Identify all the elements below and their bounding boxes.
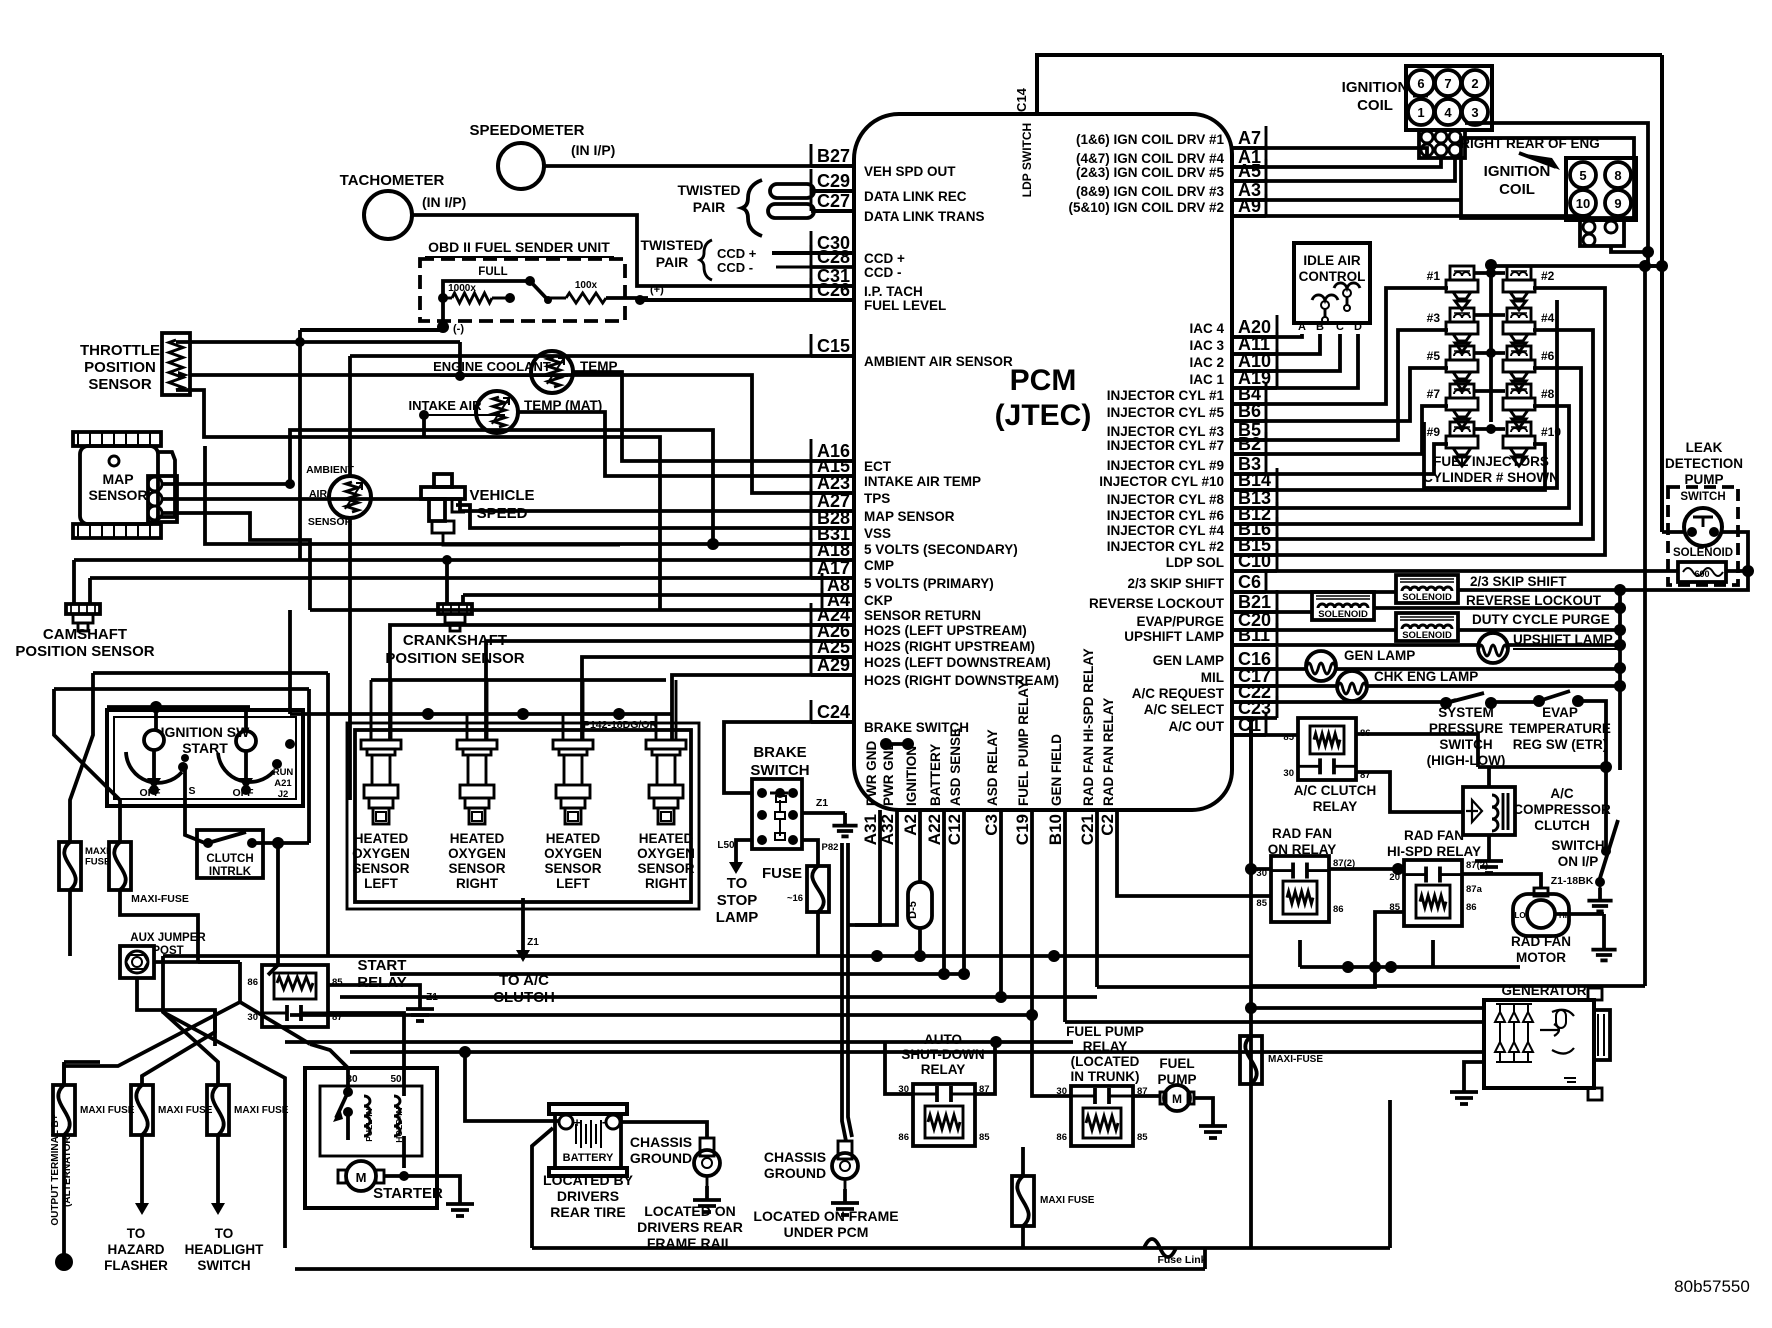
wire B5 to injector #3 xyxy=(1232,330,1448,440)
wire fuse down xyxy=(816,912,820,956)
svg-text:87a: 87a xyxy=(1466,884,1483,895)
svg-text:FUSE: FUSE xyxy=(762,865,802,882)
svg-text:LDP SWITCH: LDP SWITCH xyxy=(1020,123,1034,197)
wire A10 IAC pin C xyxy=(1232,334,1340,371)
svg-text:PWR GND: PWR GND xyxy=(881,741,896,806)
svg-text:CYLINDER # SHOWN: CYLINDER # SHOWN xyxy=(1423,470,1559,485)
wire C24 brake switch xyxy=(724,722,854,793)
wire B14 to injector #10 xyxy=(1232,444,1545,490)
bus battery feed xyxy=(390,972,964,976)
svg-text:AUTO: AUTO xyxy=(924,1032,962,1047)
svg-text:FUEL LEVEL: FUEL LEVEL xyxy=(864,298,946,313)
svg-text:OXYGEN: OXYGEN xyxy=(352,846,410,861)
injector #3 xyxy=(1450,308,1474,322)
wire C15 ambient air sensor xyxy=(350,354,854,358)
svg-text:SWITCH: SWITCH xyxy=(1680,491,1725,503)
injector row supply wire xyxy=(1474,389,1505,393)
svg-text:LEFT: LEFT xyxy=(556,876,590,891)
svg-text:MOTOR: MOTOR xyxy=(1516,950,1566,965)
relay 86 wire xyxy=(1356,734,1478,767)
svg-text:VEHICLE: VEHICLE xyxy=(469,487,534,504)
svg-text:PAIR: PAIR xyxy=(656,254,688,270)
svg-text:C15: C15 xyxy=(817,336,850,356)
bus sensor return to A4 xyxy=(310,608,854,612)
injector supply bus vertical xyxy=(1489,265,1493,422)
svg-text:SOLENOID: SOLENOID xyxy=(1318,609,1368,620)
svg-text:LEFT: LEFT xyxy=(364,876,398,891)
svg-text:C19: C19 xyxy=(1013,814,1032,845)
svg-text:GEN LAMP: GEN LAMP xyxy=(1153,653,1224,668)
wire TPS signal to A23 xyxy=(189,375,854,493)
svg-text:A7: A7 xyxy=(1238,128,1261,148)
svg-text:VEH SPD OUT: VEH SPD OUT xyxy=(864,164,956,179)
wire battery - to chassis ground 1 xyxy=(620,1122,707,1138)
svg-text:HEATED: HEATED xyxy=(354,831,409,846)
svg-text:IN TRUNK): IN TRUNK) xyxy=(1071,1069,1140,1084)
svg-text:C: C xyxy=(1336,321,1344,333)
svg-text:TO: TO xyxy=(727,875,748,892)
LDP solenoid 600 ohm xyxy=(1678,562,1726,582)
2/3 skip shift solenoid xyxy=(1396,575,1458,603)
heated oxygen sensor right 4 xyxy=(646,740,686,749)
svg-text:IGNITION: IGNITION xyxy=(1342,79,1409,96)
bus CMP to A18 xyxy=(74,558,854,562)
svg-text:PAIR: PAIR xyxy=(693,199,725,215)
fuel injector bank box xyxy=(1424,300,1557,488)
svg-text:BRAKE: BRAKE xyxy=(753,744,806,761)
wire brake switch P82 to fuse xyxy=(802,840,818,866)
wire bus to ASD relay xyxy=(885,1042,913,1094)
svg-text:(4&7) IGN COIL DRV #4: (4&7) IGN COIL DRV #4 xyxy=(1076,151,1225,166)
maxi fuse left 1 xyxy=(59,842,81,890)
svg-text:M: M xyxy=(356,1170,367,1185)
svg-text:B21: B21 xyxy=(1238,592,1271,612)
svg-text:MAXI FUSE: MAXI FUSE xyxy=(234,1105,289,1116)
svg-text:CCD +: CCD + xyxy=(864,251,905,266)
wire A1 to coil T1 xyxy=(1232,158,1441,167)
svg-text:A22: A22 xyxy=(925,814,944,845)
svg-text:STOP: STOP xyxy=(717,892,758,909)
svg-text:TACHOMETER: TACHOMETER xyxy=(340,172,445,189)
svg-text:C21: C21 xyxy=(1078,814,1097,845)
node (-) sender ground xyxy=(441,298,445,327)
start relay 85 to Z1 ground xyxy=(328,985,420,995)
svg-text:#4: #4 xyxy=(1541,311,1555,325)
injector #8 xyxy=(1507,384,1531,398)
maxi fuse left 2 xyxy=(109,842,131,890)
wire CCD+ to C30 xyxy=(772,251,854,255)
svg-text:INJECTOR CYL #8: INJECTOR CYL #8 xyxy=(1107,492,1225,507)
svg-text:SENSOR: SENSOR xyxy=(637,861,694,876)
compressor clutch ground xyxy=(1487,835,1491,847)
bus fuel pump xyxy=(290,1013,1032,1017)
svg-text:ASD RELAY: ASD RELAY xyxy=(985,729,1000,806)
svg-text:A: A xyxy=(1298,321,1306,333)
maxi fuse bottom 1 xyxy=(53,1085,75,1135)
svg-text:SENSOR: SENSOR xyxy=(448,861,505,876)
svg-text:MAXI-FUSE: MAXI-FUSE xyxy=(131,893,189,905)
svg-text:CLUTCH: CLUTCH xyxy=(493,989,555,1006)
starter motor M xyxy=(346,1161,376,1191)
svg-text:IAC 3: IAC 3 xyxy=(1189,338,1224,353)
svg-text:INJECTOR CYL #1: INJECTOR CYL #1 xyxy=(1107,388,1225,403)
outer box right edge xyxy=(1660,55,1664,532)
svg-text:FUEL PUMP RELAY: FUEL PUMP RELAY xyxy=(1016,680,1031,806)
svg-text:SOLENOID: SOLENOID xyxy=(1673,547,1733,559)
wire fuel level to C26 xyxy=(640,298,854,302)
svg-text:87(2): 87(2) xyxy=(1466,860,1488,871)
svg-text:GROUND: GROUND xyxy=(764,1165,826,1181)
svg-text:5: 5 xyxy=(1579,168,1586,183)
wire LDP switch to outer bus xyxy=(1662,530,1684,534)
wire C21 hi-spd coil xyxy=(1097,912,1404,987)
rad fan motor ground xyxy=(1555,912,1604,916)
svg-text:C14: C14 xyxy=(1014,87,1029,112)
svg-text:10: 10 xyxy=(1576,196,1590,211)
wire B3 to injector #9 xyxy=(1232,444,1448,474)
svg-text:CHASSIS: CHASSIS xyxy=(764,1149,826,1165)
svg-text:START: START xyxy=(182,740,228,756)
svg-text:A/C REQUEST: A/C REQUEST xyxy=(1132,686,1225,701)
wire sender ground to splice xyxy=(300,328,443,332)
svg-text:CHASSIS: CHASSIS xyxy=(630,1134,692,1150)
svg-text:OFF: OFF xyxy=(233,787,255,799)
svg-text:REAR TIRE: REAR TIRE xyxy=(550,1204,625,1220)
svg-text:SWITCH: SWITCH xyxy=(750,762,809,779)
wire pressure switch to compressor xyxy=(1478,765,1606,769)
wire C19 to fuel pump relay xyxy=(1032,1015,1071,1096)
svg-text:C28: C28 xyxy=(817,247,850,267)
svg-text:Z1: Z1 xyxy=(816,797,828,809)
svg-text:IAC 2: IAC 2 xyxy=(1189,355,1224,370)
svg-text:SENSOR: SENSOR xyxy=(88,487,147,503)
svg-text:POSITION SENSOR: POSITION SENSOR xyxy=(385,650,524,667)
svg-text:SENSOR: SENSOR xyxy=(544,861,601,876)
svg-text:A5: A5 xyxy=(1238,161,1261,181)
wire C20 to purge solenoid xyxy=(1232,628,1396,632)
MAP sensor xyxy=(73,432,161,446)
svg-text:SENSOR RETURN: SENSOR RETURN xyxy=(864,608,981,623)
svg-text:COIL: COIL xyxy=(1499,181,1535,198)
fuel pump relay wire C19 xyxy=(1030,810,1034,1015)
starter solenoid switch xyxy=(346,1068,350,1092)
starter assembly xyxy=(305,1068,437,1208)
brake switch sense contact inside PCM xyxy=(880,738,892,750)
ignition switch box xyxy=(107,710,303,806)
svg-text:EVAP/PURGE: EVAP/PURGE xyxy=(1136,614,1224,629)
svg-text:30: 30 xyxy=(1283,768,1294,779)
wire skip shift return xyxy=(1458,571,1748,590)
maxi-fuse alternator xyxy=(1240,1036,1262,1084)
svg-text:DRIVERS: DRIVERS xyxy=(557,1188,619,1204)
bus 5V primary to A17 xyxy=(90,576,854,580)
svg-text:C3: C3 xyxy=(982,814,1001,836)
wire brake switch L50 to stop lamp xyxy=(736,840,752,852)
battery xyxy=(549,1104,627,1114)
rad fan relay wire C2 xyxy=(1117,810,1271,896)
wire VSS to B28 xyxy=(456,505,854,528)
svg-text:#5: #5 xyxy=(1427,349,1441,363)
svg-text:85: 85 xyxy=(1256,898,1267,909)
svg-text:CKP: CKP xyxy=(864,593,893,608)
svg-text:#2: #2 xyxy=(1541,269,1555,283)
svg-text:#6: #6 xyxy=(1541,349,1555,363)
svg-text:COIL: COIL xyxy=(1357,97,1393,114)
svg-text:RELAY: RELAY xyxy=(357,974,406,991)
wire TPS return xyxy=(176,390,660,610)
bottom bus 1 xyxy=(532,1246,1390,1250)
svg-text:FUEL INJECTORS: FUEL INJECTORS xyxy=(1433,454,1549,469)
svg-text:HEATED: HEATED xyxy=(639,831,694,846)
wire MAT return junction xyxy=(419,410,429,420)
fan circuit bottom bus xyxy=(1251,984,1645,988)
svg-text:GENERATOR: GENERATOR xyxy=(1501,983,1586,998)
svg-text:2: 2 xyxy=(1471,76,1478,91)
svg-text:DUTY CYCLE PURGE: DUTY CYCLE PURGE xyxy=(1472,612,1610,627)
wire start relay 87 to starter 50 xyxy=(328,1013,404,1068)
wire B21 to reverse lockout xyxy=(1232,610,1312,614)
svg-text:HI-SPD RELAY: HI-SPD RELAY xyxy=(1387,844,1481,859)
svg-text:IAC 4: IAC 4 xyxy=(1189,321,1224,336)
maxi fuse bottom 3 xyxy=(207,1085,229,1135)
A/C compressor clutch xyxy=(1463,787,1515,835)
svg-text:(LOCATED: (LOCATED xyxy=(1071,1054,1140,1069)
svg-text:OFF: OFF xyxy=(140,787,162,799)
wire A29 HO2S4 signal xyxy=(672,675,854,740)
svg-text:LOCATED BY: LOCATED BY xyxy=(543,1172,634,1188)
svg-text:FULL: FULL xyxy=(478,266,507,278)
svg-text:MAP SENSOR: MAP SENSOR xyxy=(864,509,955,524)
svg-text:LO: LO xyxy=(1514,911,1525,920)
svg-text:OBD II FUEL SENDER UNIT: OBD II FUEL SENDER UNIT xyxy=(428,239,610,255)
svg-text:OXYGEN: OXYGEN xyxy=(448,846,506,861)
svg-text:MAXI FUSE: MAXI FUSE xyxy=(158,1105,213,1116)
injector #1 xyxy=(1450,266,1474,280)
svg-text:B: B xyxy=(1316,321,1324,333)
injector row supply wire xyxy=(1474,313,1505,317)
svg-text:INTAKE AIR TEMP: INTAKE AIR TEMP xyxy=(864,474,981,489)
generator field coil xyxy=(1556,1010,1566,1028)
svg-text:#9: #9 xyxy=(1427,425,1441,439)
ignition switch pole 2 xyxy=(236,731,256,751)
bus starter feed xyxy=(285,1040,1073,1044)
wire A19 IAC pin D xyxy=(1232,334,1358,388)
svg-text:CCD -: CCD - xyxy=(864,265,902,280)
wire on relay 87 to hi-spd 20 xyxy=(1329,867,1404,871)
svg-text:LAMP: LAMP xyxy=(716,909,759,926)
svg-text:Z1: Z1 xyxy=(527,937,539,948)
svg-text:#3: #3 xyxy=(1427,311,1441,325)
svg-text:START: START xyxy=(358,957,407,974)
svg-text:TO: TO xyxy=(215,1226,234,1241)
svg-text:UNDER PCM: UNDER PCM xyxy=(784,1224,869,1240)
injector #2 xyxy=(1507,266,1531,280)
MAP sensor connector xyxy=(158,452,175,517)
svg-text:SWITCH: SWITCH xyxy=(197,1258,250,1273)
svg-text:LDP SOL: LDP SOL xyxy=(1166,555,1224,570)
svg-text:INJECTOR CYL #10: INJECTOR CYL #10 xyxy=(1099,474,1224,489)
svg-text:3: 3 xyxy=(1471,105,1478,120)
wire C22 through switches xyxy=(1232,700,1446,704)
wire MAP signal to A27 xyxy=(162,499,854,511)
wire C14 LDP switch riser and top bus xyxy=(1037,55,1662,114)
battery feed bus xyxy=(942,810,946,974)
svg-text:FLASHER: FLASHER xyxy=(104,1258,168,1273)
wire camshaft 5V xyxy=(88,578,92,604)
wire B15 to injector #2 xyxy=(1232,288,1605,555)
svg-text:SPEED: SPEED xyxy=(477,505,528,522)
svg-text:HEATED: HEATED xyxy=(546,831,601,846)
svg-text:FUSE: FUSE xyxy=(85,857,110,868)
svg-text:SENSOR: SENSOR xyxy=(352,861,409,876)
generator diode bridge xyxy=(1495,1012,1505,1022)
svg-text:(JTEC): (JTEC) xyxy=(995,399,1092,432)
svg-text:Z1: Z1 xyxy=(426,992,438,1003)
svg-text:MAXI: MAXI xyxy=(85,846,109,857)
svg-text:(5&10) IGN COIL DRV #2: (5&10) IGN COIL DRV #2 xyxy=(1068,200,1224,215)
wire C1 to A/C clutch relay xyxy=(1232,733,1298,737)
svg-text:HEADLIGHT: HEADLIGHT xyxy=(185,1242,264,1257)
svg-text:C27: C27 xyxy=(817,191,850,211)
svg-text:TPS: TPS xyxy=(864,491,890,506)
svg-text:A/C OUT: A/C OUT xyxy=(1169,719,1225,734)
svg-text:INJECTOR CYL #2: INJECTOR CYL #2 xyxy=(1107,539,1224,554)
svg-text:INJECTOR CYL #4: INJECTOR CYL #4 xyxy=(1107,523,1225,538)
wire clutch intrlk to start relay xyxy=(252,841,309,845)
generator connector xyxy=(1594,1010,1610,1060)
svg-text:AMBIENT AIR SENSOR: AMBIENT AIR SENSOR xyxy=(864,354,1013,369)
svg-text:SWITCH: SWITCH xyxy=(1551,838,1604,853)
svg-text:#7: #7 xyxy=(1427,387,1441,401)
svg-text:TWISTED: TWISTED xyxy=(678,182,741,198)
svg-text:(IN I/P): (IN I/P) xyxy=(571,142,615,158)
svg-text:MIL: MIL xyxy=(1201,670,1224,685)
svg-text:OXYGEN: OXYGEN xyxy=(544,846,602,861)
D-5 diode xyxy=(918,810,922,882)
gen field wire B10 xyxy=(1063,810,1067,1022)
relay coil return junction dots xyxy=(1342,961,1354,973)
svg-text:DETECTION: DETECTION xyxy=(1665,456,1743,471)
svg-text:PWR GND: PWR GND xyxy=(864,741,879,806)
svg-text:SOLENOID: SOLENOID xyxy=(1402,630,1452,641)
svg-text:RAD FAN RELAY: RAD FAN RELAY xyxy=(1101,698,1116,806)
svg-text:Z1-18BK: Z1-18BK xyxy=(1551,875,1594,887)
svg-text:RELAY: RELAY xyxy=(921,1062,966,1077)
generator case hatch xyxy=(1564,1078,1576,1082)
wire relay 30 feed xyxy=(1251,867,1271,871)
svg-text:TWISTED: TWISTED xyxy=(641,237,704,253)
wire coil T1 to right bus xyxy=(1465,123,1648,266)
wire A3 to coil T2 xyxy=(1232,198,1461,202)
wire A11 IAC pin B xyxy=(1232,334,1320,354)
wire C6 to skip shift xyxy=(1232,590,1396,594)
wire C10 LDP SOL xyxy=(1232,569,1678,573)
svg-text:CHK ENG LAMP: CHK ENG LAMP xyxy=(1374,669,1478,684)
heated oxygen sensor bank enclosure xyxy=(355,730,691,902)
wire A24 HO2S1 signal xyxy=(390,625,854,740)
A/C clutch relay K1 xyxy=(1298,718,1356,780)
sender wiper switch xyxy=(530,281,548,300)
svg-text:D: D xyxy=(1354,321,1362,333)
svg-text:TO A/C: TO A/C xyxy=(499,972,549,989)
wire VSS return xyxy=(443,533,620,545)
svg-text:SPEEDOMETER: SPEEDOMETER xyxy=(469,122,584,139)
svg-text:PCM: PCM xyxy=(1010,364,1077,397)
svg-text:1000x: 1000x xyxy=(448,283,476,294)
ASD sense wire xyxy=(962,810,966,974)
relay 87 wire down xyxy=(1356,772,1463,812)
inner box around rear coil xyxy=(1461,138,1634,218)
wire reverse lockout return xyxy=(1374,606,1620,610)
svg-text:2/3 SKIP SHIFT: 2/3 SKIP SHIFT xyxy=(1470,574,1567,589)
svg-text:CMP: CMP xyxy=(864,558,894,573)
wire TPS 5V supply xyxy=(176,340,300,344)
svg-text:ON I/P: ON I/P xyxy=(1558,854,1599,869)
svg-text:IAC 1: IAC 1 xyxy=(1189,372,1224,387)
svg-text:GEN LAMP: GEN LAMP xyxy=(1344,648,1415,663)
svg-text:IGNITION: IGNITION xyxy=(904,746,919,806)
svg-text:STARTER: STARTER xyxy=(373,1185,443,1202)
TPS wiper arrow xyxy=(178,371,189,379)
wire ECT supply junction xyxy=(455,371,465,381)
rad fan motor M1 xyxy=(1513,894,1569,936)
svg-text:TEMPERATURE: TEMPERATURE xyxy=(1509,721,1611,736)
wire speedometer to B27 xyxy=(544,164,854,168)
svg-text:BATTERY: BATTERY xyxy=(563,1152,614,1164)
svg-text:RAD FAN: RAD FAN xyxy=(1272,826,1332,841)
svg-text:RAD FAN: RAD FAN xyxy=(1511,934,1571,949)
wire C23 A/C select xyxy=(1232,718,1251,790)
svg-text:RIGHT: RIGHT xyxy=(456,876,499,891)
svg-text:9: 9 xyxy=(1614,196,1621,211)
svg-text:ECT: ECT xyxy=(864,459,892,474)
wire ign sw feeds xyxy=(154,707,158,730)
svg-text:50: 50 xyxy=(390,1074,402,1085)
bus ignition run xyxy=(163,954,1251,958)
left vertical feed to relays xyxy=(1249,718,1253,1248)
bus asd xyxy=(340,995,1097,999)
svg-text:IDLE AIR: IDLE AIR xyxy=(1303,253,1361,268)
svg-text:CCD -: CCD - xyxy=(717,260,753,275)
svg-text:POST: POST xyxy=(152,945,183,957)
svg-text:AIR: AIR xyxy=(309,488,328,500)
wire relay 87 to fuel pump xyxy=(1133,1094,1160,1098)
svg-text:86: 86 xyxy=(898,1132,909,1143)
svg-text:SHUT-DOWN: SHUT-DOWN xyxy=(901,1047,984,1062)
svg-text:(2&3) IGN COIL DRV #5: (2&3) IGN COIL DRV #5 xyxy=(1076,165,1225,180)
svg-text:HO2S (RIGHT UPSTREAM): HO2S (RIGHT UPSTREAM) xyxy=(864,639,1035,654)
LDP switch xyxy=(1684,508,1722,546)
svg-text:~16: ~16 xyxy=(787,893,803,904)
svg-text:REG SW (ETR): REG SW (ETR) xyxy=(1513,737,1608,752)
svg-text:RUN: RUN xyxy=(273,767,294,778)
svg-text:CAMSHAFT: CAMSHAFT xyxy=(43,626,127,643)
svg-text:M: M xyxy=(1172,1092,1182,1106)
injector row supply wire xyxy=(1474,427,1505,431)
svg-text:85: 85 xyxy=(979,1132,990,1143)
idle air control xyxy=(1294,243,1370,323)
to hazard flasher xyxy=(140,1135,144,1205)
svg-text:SWITCH: SWITCH xyxy=(1439,737,1492,752)
wire LDP switch to solenoid loop xyxy=(1722,532,1748,571)
svg-text:B10: B10 xyxy=(1046,814,1065,845)
svg-text:MAXI-FUSE: MAXI-FUSE xyxy=(1268,1054,1323,1065)
svg-text:100x: 100x xyxy=(575,280,598,291)
wire crankshaft CKP riser xyxy=(445,560,449,604)
svg-text:HAZARD: HAZARD xyxy=(108,1242,165,1257)
crankshaft position sensor xyxy=(438,604,472,614)
svg-text:SENSOR: SENSOR xyxy=(88,376,152,393)
